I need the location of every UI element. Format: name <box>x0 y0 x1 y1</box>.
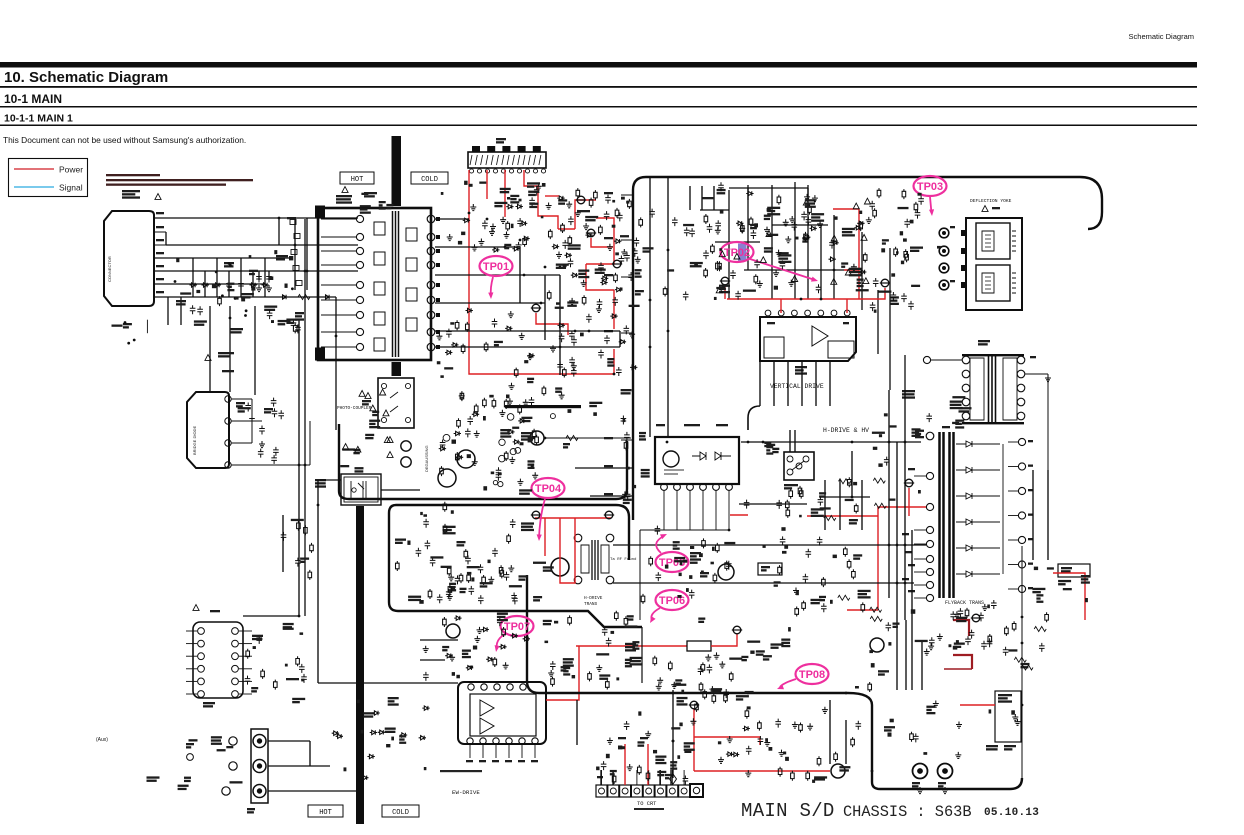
svg-text:MAIN S/D: MAIN S/D <box>741 800 835 822</box>
svg-text:Schematic Diagram: Schematic Diagram <box>1129 32 1194 41</box>
svg-text:H-DRIVE & HV: H-DRIVE & HV <box>823 427 869 434</box>
svg-text:10-1-1 MAIN 1: 10-1-1 MAIN 1 <box>4 113 73 125</box>
svg-text:10. Schematic Diagram: 10. Schematic Diagram <box>4 69 168 86</box>
svg-text:(Aux): (Aux) <box>96 737 108 743</box>
svg-text:TP01: TP01 <box>483 261 509 273</box>
svg-text:Power: Power <box>59 165 83 175</box>
svg-text:This Document can not be used: This Document can not be used without Sa… <box>3 135 246 145</box>
svg-text:DEFLECTION YOKE: DEFLECTION YOKE <box>970 198 1012 204</box>
svg-text:10-1 MAIN: 10-1 MAIN <box>4 92 62 106</box>
svg-text:COLD: COLD <box>392 809 409 817</box>
svg-text:05.10.13: 05.10.13 <box>984 807 1039 819</box>
svg-text:CHASSIS : S63B: CHASSIS : S63B <box>843 803 972 821</box>
svg-text:HOT: HOT <box>351 176 364 184</box>
svg-text:FLYBACK TRANS: FLYBACK TRANS <box>945 600 984 606</box>
svg-text:BRIDGE DIODE: BRIDGE DIODE <box>192 426 197 455</box>
svg-text:TP04: TP04 <box>535 483 562 495</box>
svg-text:EW-DRIVE: EW-DRIVE <box>452 789 480 796</box>
svg-text:COLD: COLD <box>421 176 438 184</box>
svg-text:TO CRT: TO CRT <box>637 801 657 807</box>
svg-text:HOT: HOT <box>319 809 332 817</box>
svg-text:Ta RF Found: Ta RF Found <box>610 557 637 562</box>
svg-text:TRANS: TRANS <box>584 602 598 607</box>
svg-text:PHOTO-COUPLER: PHOTO-COUPLER <box>337 406 372 411</box>
svg-text:TP08: TP08 <box>799 669 825 681</box>
svg-text:TP07: TP07 <box>504 621 530 633</box>
svg-text:Signal: Signal <box>59 183 83 193</box>
svg-text:H-DRIVE: H-DRIVE <box>584 596 603 601</box>
svg-text:DEGAUSSING: DEGAUSSING <box>424 445 429 472</box>
svg-text:CONNECTOR: CONNECTOR <box>107 256 112 282</box>
svg-text:TP03: TP03 <box>917 181 943 193</box>
